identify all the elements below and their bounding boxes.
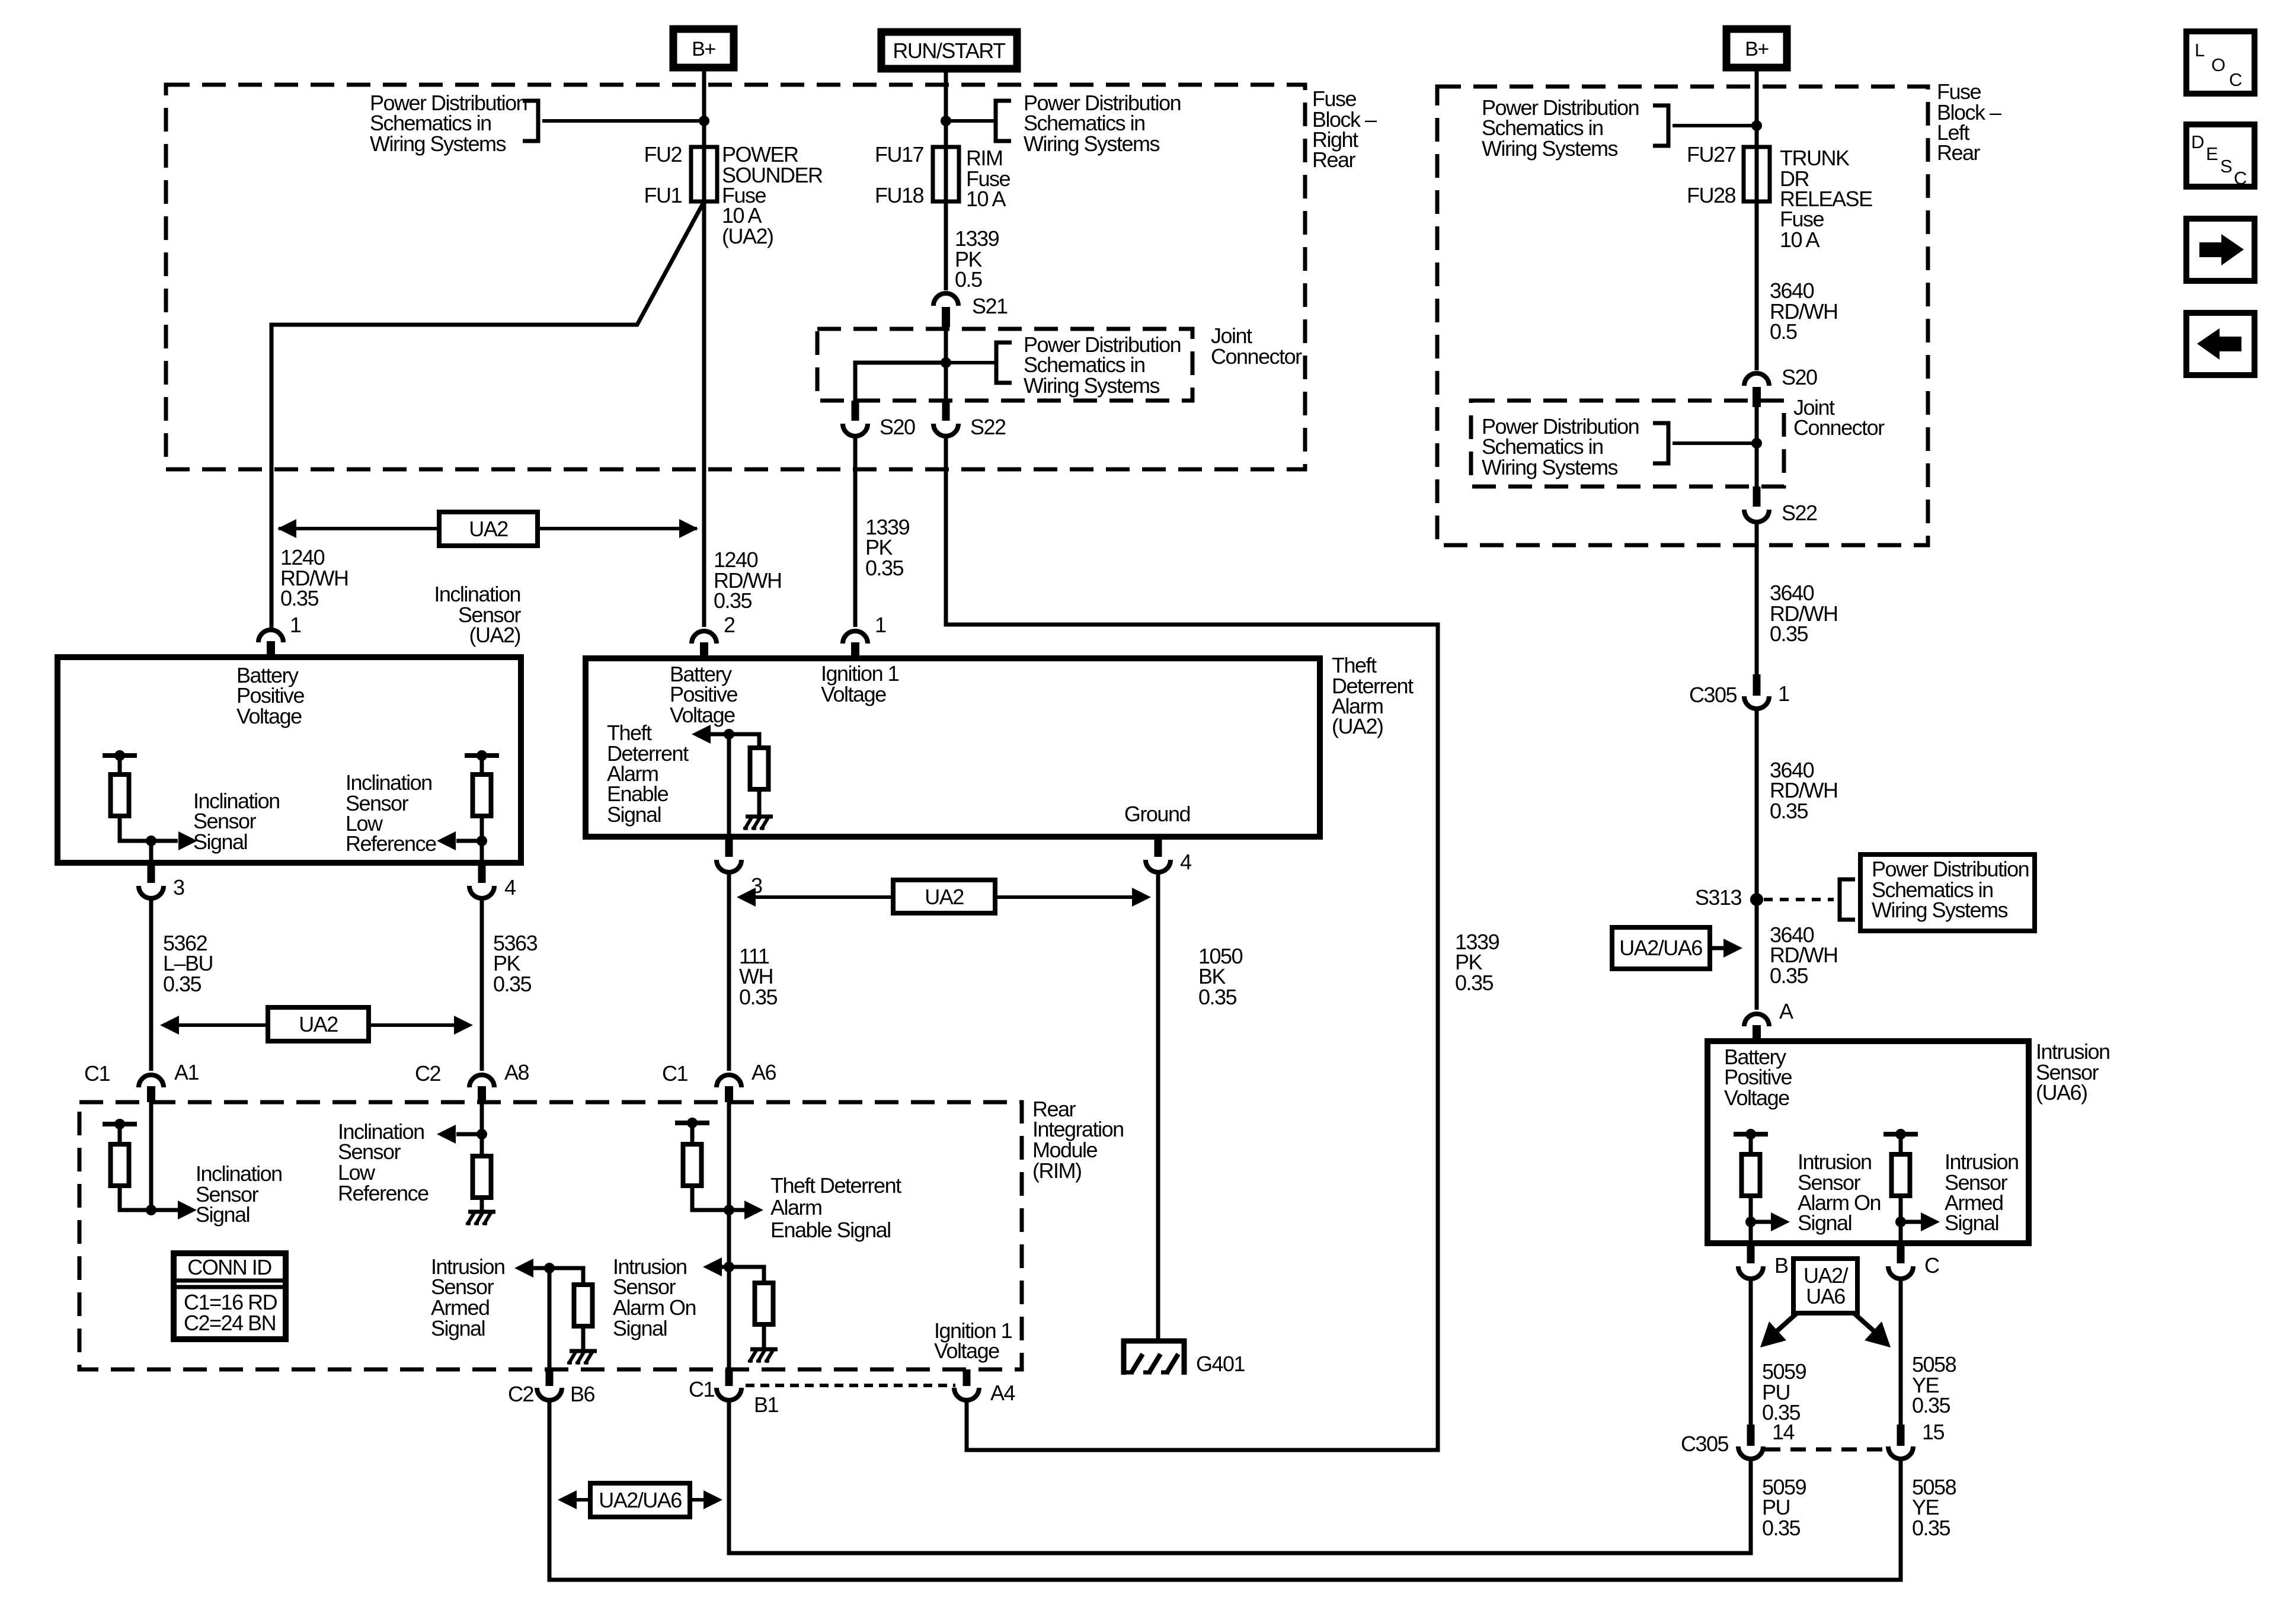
svg-text:Voltage: Voltage	[236, 704, 302, 728]
intrusion alarm on resistor	[1742, 1154, 1760, 1196]
splice label S22	[970, 415, 1006, 439]
RIM armed signal arrow	[532, 1266, 549, 1270]
wire fuse FU28 to splice S20 left rear	[1755, 147, 1759, 370]
svg-text:(UA6): (UA6)	[2036, 1080, 2087, 1105]
svg-text:RUN/START: RUN/START	[893, 39, 1006, 63]
ground label G401	[1196, 1352, 1245, 1376]
tda label theft deterrent alarm UA2	[1332, 653, 1414, 738]
svg-text:A8: A8	[504, 1060, 529, 1084]
splice label S22 (left rear)	[1782, 501, 1817, 525]
inclination sensor signal arrow	[151, 839, 178, 843]
RIM armed signal resistor lead	[549, 1268, 583, 1285]
svg-text:C: C	[2234, 168, 2247, 188]
intrusion sensor pin A connector	[1744, 1014, 1769, 1041]
svg-text:C: C	[1924, 1253, 1939, 1278]
power distribution note 4	[1482, 95, 1639, 161]
fuse value label TRUNK DR RELEASE Fuse 10 A	[1780, 146, 1872, 252]
svg-text:Wiring Systems: Wiring Systems	[370, 132, 506, 156]
joint connector box (left rear, dashed)	[1471, 401, 1784, 486]
svg-text:3: 3	[173, 875, 184, 900]
RIM inclination low reference label	[338, 1119, 428, 1205]
svg-text:FU1: FU1	[644, 183, 682, 207]
pin label C1 (A1)	[84, 1061, 110, 1086]
intrusion armed resistor	[1892, 1154, 1910, 1196]
harness label box UA2 (incl)	[268, 1007, 369, 1041]
svg-text:0.35: 0.35	[1912, 1516, 1950, 1540]
RIM alarm on signal arrow	[722, 1265, 729, 1269]
RIM pin A6 connector	[717, 1075, 741, 1102]
wire junction to bracket (power distribution ref 2)	[946, 119, 996, 123]
svg-text:C2: C2	[415, 1061, 440, 1086]
fuse block - right rear (dashed enclosure)	[166, 85, 1305, 469]
RIM alarm on resistor lead	[729, 1267, 764, 1283]
junction RIM enable signal	[724, 1205, 734, 1215]
RIM low reference resistor	[473, 1156, 491, 1198]
bracket to power distribution note 1	[523, 101, 538, 141]
svg-text:0.35: 0.35	[280, 586, 319, 610]
junction tda enable signal	[724, 729, 734, 740]
splice S21	[933, 293, 958, 327]
svg-text:C1: C1	[689, 1377, 714, 1401]
inclination box label battery positive voltage	[236, 663, 305, 728]
wire RIM B1 to intrusion sensor B	[729, 1400, 1751, 1553]
inclination sensor signal resistor lower lead	[120, 816, 151, 841]
joint connector label (left rear)	[1793, 395, 1885, 440]
intrusion sensor reference label (UA6)	[2036, 1039, 2110, 1105]
arrowhead left (UA2/UA6 bottom)	[558, 1490, 577, 1509]
wire intrusion B to C305 pin 14	[1749, 1279, 1753, 1426]
svg-text:0.5: 0.5	[1770, 319, 1797, 344]
RIM pin B6 connector	[537, 1369, 562, 1400]
arrowhead left (UA2 battery feeds)	[277, 519, 296, 538]
bracket to power distribution note 5	[1653, 423, 1668, 463]
svg-text:G401: G401	[1196, 1352, 1245, 1376]
inclination pin 4 connector	[469, 863, 494, 898]
connector C305 pin 15	[1888, 1425, 1913, 1459]
svg-text:(RIM): (RIM)	[1032, 1158, 1081, 1183]
pin label B (intrusion)	[1774, 1253, 1788, 1278]
RIM intrusion sensor armed signal label	[431, 1254, 505, 1340]
harness range arrow UA2 (battery feeds)	[279, 527, 697, 530]
splice S20 (left rear)	[1744, 373, 1769, 407]
svg-text:CONN ID: CONN ID	[187, 1255, 271, 1279]
junction in joint connector 2	[1751, 438, 1762, 449]
wire label 3640 RD/WH 0.35 (below S313)	[1770, 923, 1837, 988]
wire label 1240 RD/WH 0.35 (inclination feed)	[280, 545, 348, 610]
svg-text:0.35: 0.35	[739, 985, 778, 1009]
RIM enable signal lower lead	[692, 1186, 729, 1210]
fuse value label RIM Fuse 10 A	[966, 146, 1011, 211]
power distribution reference box (solid)	[1860, 854, 2035, 931]
rear integration module RIM (dashed enclosure)	[79, 1102, 1022, 1369]
intrusion pin C connector	[1888, 1243, 1913, 1279]
svg-text:Signal: Signal	[1945, 1211, 1998, 1235]
wire S22 left rear to connector C305 pin 1	[1755, 521, 1759, 677]
tda pin 1 connector	[843, 631, 868, 658]
junction on B+ wire	[699, 116, 709, 126]
svg-text:Connector: Connector	[1793, 415, 1885, 440]
svg-text:15: 15	[1922, 1420, 1945, 1444]
svg-text:2: 2	[724, 613, 735, 637]
svg-text:A1: A1	[174, 1060, 199, 1084]
RIM theft deterrent alarm enable signal label	[770, 1173, 901, 1242]
svg-text:Signal: Signal	[1798, 1211, 1851, 1235]
pin label A4	[990, 1381, 1015, 1405]
svg-text:UA2: UA2	[469, 517, 508, 541]
svg-text:Wiring Systems: Wiring Systems	[1482, 455, 1618, 479]
svg-text:(UA2): (UA2)	[722, 224, 773, 248]
svg-text:1: 1	[1778, 681, 1789, 706]
harness label box UA2/UA6 (S313)	[1612, 927, 1710, 969]
RIM inclination signal resistor t-bar	[103, 1119, 137, 1129]
svg-text:O: O	[2211, 55, 2225, 75]
inclination low reference resistor t-bar	[465, 750, 499, 761]
wire label 1240 RD/WH 0.35 (tda feed)	[714, 548, 781, 613]
svg-text:C1: C1	[662, 1061, 687, 1086]
splice S22	[933, 401, 958, 436]
intrusion armed lower lead	[1899, 1196, 1903, 1243]
svg-text:C1: C1	[84, 1061, 110, 1086]
RIM armed signal lower lead	[581, 1326, 586, 1350]
svg-text:A: A	[1779, 999, 1793, 1023]
inclination sensor signal resistor lead	[118, 756, 122, 774]
arrowhead right (UA2 incl)	[454, 1016, 473, 1035]
svg-text:Wiring Systems: Wiring Systems	[1872, 898, 2008, 922]
splice S20	[843, 401, 868, 436]
connector C305 pin 14	[1738, 1425, 1763, 1459]
wire S20 into joint connector 2	[1755, 399, 1759, 443]
arrow UA2/UA6 to wire C	[1854, 1313, 1876, 1333]
wire fuse FU18 to splice S21	[944, 147, 948, 290]
wire junction to splice S20 branch	[855, 363, 946, 403]
svg-text:Voltage: Voltage	[670, 703, 735, 727]
svg-text:Voltage: Voltage	[821, 682, 886, 706]
svg-text:FU17: FU17	[875, 142, 924, 167]
wire diagonal from fuse FU1 toward inclination sensor	[271, 201, 704, 628]
pin label A (intrusion)	[1779, 999, 1793, 1023]
harness label box UA2 (battery feeds)	[439, 512, 538, 546]
svg-text:S22: S22	[970, 415, 1006, 439]
svg-text:0.35: 0.35	[163, 972, 202, 996]
pin label C1 (B1)	[689, 1377, 714, 1401]
ground G401 symbol	[1121, 1339, 1187, 1375]
inclination sensor box	[57, 657, 521, 863]
bracket to power distribution note 2	[996, 101, 1011, 141]
svg-text:Rear: Rear	[1312, 148, 1356, 172]
ground symbol inside tda	[743, 817, 773, 830]
wire inclination pin 3 internal	[149, 841, 154, 863]
wire tda pin 3 to RIM A6	[727, 872, 731, 1071]
ground symbol RIM alarm on	[748, 1349, 778, 1362]
wire S21 into joint connector	[944, 319, 948, 363]
splice S22 (left rear)	[1744, 486, 1769, 522]
svg-text:B6: B6	[570, 1382, 595, 1406]
power node B+ (fuse block left rear)	[1726, 29, 1787, 68]
svg-text:A4: A4	[990, 1381, 1015, 1405]
inclination low reference arrow	[456, 839, 482, 843]
svg-text:4: 4	[504, 875, 516, 900]
tda label ground	[1124, 802, 1190, 826]
tda pin 4 connector	[1146, 837, 1171, 872]
fuse label FU17	[875, 142, 924, 167]
intrusion alarm on resistor lead	[1749, 1134, 1753, 1154]
wire junction to bracket (power distribution ref 4)	[1673, 124, 1757, 127]
wire label 5362 L-BU 0.35	[163, 931, 213, 996]
RIM inclination signal resistor	[111, 1144, 129, 1186]
RIM enable signal resistor lead	[690, 1123, 695, 1144]
RIM inclination signal resistor lead	[118, 1124, 122, 1144]
power distribution note 6 (boxed)	[1872, 857, 2029, 922]
wire label 1050 BK 0.35	[1198, 944, 1243, 1009]
wire fuse FU1 to theft deterrent alarm pin 2	[702, 147, 706, 627]
svg-text:FU18: FU18	[875, 183, 924, 207]
RIM enable signal resistor	[683, 1144, 702, 1186]
tda enable signal label	[607, 721, 689, 827]
splice label S20	[880, 415, 915, 439]
svg-text:0.35: 0.35	[1770, 622, 1808, 646]
fuse block - left rear (dashed enclosure)	[1437, 87, 1928, 545]
harness label box UA2 (tda)	[893, 880, 995, 913]
inclination low reference label	[346, 770, 436, 856]
intrusion sensor alarm on signal label	[1798, 1150, 1881, 1235]
fuse block - left rear label	[1937, 79, 2001, 165]
svg-text:C305: C305	[1689, 683, 1737, 707]
svg-text:Reference: Reference	[338, 1181, 428, 1205]
svg-text:C2=24 BN: C2=24 BN	[184, 1311, 276, 1335]
junction RIM armed signal	[544, 1263, 555, 1273]
splice S313 junction	[1750, 893, 1763, 906]
harness label box UA2/UA6 (intrusion)	[1793, 1259, 1857, 1313]
bracket to power distribution box	[1840, 879, 1855, 920]
connector C305 pin 1	[1744, 674, 1769, 709]
RIM inclination sensor signal label	[196, 1161, 282, 1227]
bracket to power distribution note 3	[996, 343, 1012, 383]
svg-text:Wiring Systems: Wiring Systems	[1024, 132, 1160, 156]
inclination sensor signal label	[193, 789, 280, 854]
splice label S21	[972, 294, 1008, 318]
fuse label FU27	[1687, 142, 1736, 167]
harness range arrow UA2 (tda outputs)	[741, 895, 1144, 899]
RIM alarm on lower lead	[762, 1324, 766, 1348]
wire label 1339 PK 0.35 (long ignition feed)	[1455, 930, 1499, 995]
pin label C (intrusion)	[1924, 1253, 1939, 1278]
svg-text:S: S	[2220, 156, 2232, 177]
wire junction down to splice S22 left rear	[1755, 443, 1759, 489]
intrusion sensor box	[1707, 1041, 2029, 1243]
svg-text:S22: S22	[1782, 501, 1817, 525]
arrow UA2/UA6 to wire	[1710, 946, 1726, 950]
joint connector label (right rear)	[1211, 324, 1302, 369]
intrusion alarm on resistor t-bar	[1734, 1129, 1768, 1140]
svg-text:C305: C305	[1681, 1432, 1729, 1456]
wire label 1339 PK 0.5	[955, 226, 999, 292]
wire junction to bracket (power distribution ref)	[542, 119, 704, 123]
pin label B1	[754, 1393, 779, 1417]
wire S20 to theft deterrent alarm pin 1	[853, 435, 858, 627]
wire label 5059 PU 0.35 (upper)	[1762, 1359, 1806, 1425]
junction on RUN/START wire	[941, 116, 951, 126]
svg-text:UA2/UA6: UA2/UA6	[1619, 936, 1702, 960]
RIM pin A1 connector	[139, 1075, 164, 1102]
harness range arrow UA2 (inclination outputs)	[167, 1023, 466, 1027]
pin label C2 (A8)	[415, 1061, 440, 1086]
bracket to power distribution note 4	[1653, 105, 1668, 146]
arrowhead right (UA2 tda)	[1132, 888, 1151, 907]
tda enable signal resistor lead	[729, 734, 759, 748]
pin label 3 (inclination)	[173, 875, 184, 900]
inclination low reference resistor	[473, 774, 491, 816]
wire label 3640 RD/WH 0.35 (below C305)	[1770, 758, 1837, 823]
wire RIM A1 internal	[149, 1102, 154, 1210]
junction RIM alarm on signal	[724, 1262, 734, 1272]
wire inclination pin 4 to RIM A8	[480, 898, 484, 1071]
RIM enable signal resistor t-bar	[675, 1118, 709, 1128]
wire label 3640 RD/WH 0.35 (above C305)	[1770, 581, 1837, 646]
svg-text:0.35: 0.35	[865, 556, 904, 580]
junction RIM inclination signal	[146, 1205, 156, 1215]
harness label box UA2/UA6 (bottom)	[590, 1483, 690, 1517]
junction inclination sensor signal	[146, 836, 156, 846]
tda label ignition 1 voltage	[821, 661, 899, 706]
RIM alarm on resistor	[755, 1283, 773, 1324]
inclination pin 3 connector	[139, 863, 164, 898]
arrowhead right (UA2 battery feeds)	[679, 519, 698, 538]
svg-text:1: 1	[290, 613, 301, 637]
ground symbol RIM low reference	[466, 1212, 495, 1225]
RIM bottom notch dashed line	[746, 1384, 955, 1387]
splice label S20 (left rear)	[1782, 365, 1817, 389]
power distribution note 2	[1024, 91, 1181, 156]
wire intrusion C to C305 pin 15	[1899, 1279, 1903, 1426]
harness range arrow UA2/UA6 (bottom)	[565, 1498, 715, 1502]
inclination sensor signal resistor	[111, 774, 129, 816]
arrowhead left (UA2 incl)	[160, 1016, 179, 1035]
fuse FU17/FU18 RIM	[933, 147, 959, 201]
svg-text:Voltage: Voltage	[1724, 1086, 1789, 1110]
RIM low reference resistor lead	[480, 1134, 484, 1156]
RIM inclination signal lower lead	[120, 1186, 151, 1210]
junction inclination low reference	[477, 836, 487, 846]
power node RUN/START	[881, 32, 1017, 69]
intrusion armed resistor lead	[1899, 1134, 1903, 1154]
svg-text:S20: S20	[1782, 365, 1817, 389]
inclination sensor pin 1 connector	[258, 630, 283, 657]
svg-text:14: 14	[1772, 1420, 1795, 1444]
pin label 1 (inclination)	[290, 613, 301, 637]
wire label 1339 PK 0.35 (pin 1 feed)	[865, 515, 910, 580]
rear integration module label	[1032, 1097, 1124, 1183]
pin label A1	[174, 1060, 199, 1084]
svg-text:0.35: 0.35	[493, 972, 532, 996]
wire junction to bracket (power distribution ref 3)	[946, 361, 996, 364]
wire label 111 WH 0.35	[739, 944, 778, 1009]
pin label 14 (C305)	[1772, 1420, 1795, 1444]
fuse FU27/FU28 TRUNK DR RELEASE	[1744, 147, 1770, 201]
svg-text:0.35: 0.35	[1762, 1516, 1801, 1540]
svg-text:E: E	[2206, 143, 2218, 164]
RIM low reference lower lead	[480, 1198, 484, 1211]
RIM pin A4 connector	[954, 1369, 979, 1400]
wire label 5363 PK 0.35	[493, 931, 538, 996]
RIM armed signal junction wire	[548, 1268, 552, 1369]
wire tda pin 4 to ground G401	[1156, 872, 1160, 1341]
tda enable signal resistor lower lead	[757, 789, 762, 815]
wire S22 to RIM pin A4 (long ignition feed)	[946, 435, 1438, 1450]
pin label B6	[570, 1382, 595, 1406]
wire RIM A8 internal	[480, 1102, 484, 1134]
svg-text:B+: B+	[692, 38, 715, 60]
intrusion pin B connector	[1738, 1243, 1763, 1279]
junction RIM low reference	[477, 1129, 487, 1140]
pin label A6	[752, 1060, 776, 1084]
junction intrusion alarm on	[1745, 1217, 1756, 1227]
pin label 15 (C305)	[1922, 1420, 1945, 1444]
inclination low reference lower lead	[480, 816, 484, 863]
svg-text:S20: S20	[880, 415, 915, 439]
wire label 3640 RD/WH 0.5	[1770, 279, 1837, 344]
power distribution note 3	[1024, 332, 1181, 398]
pin label C1 (A6)	[662, 1061, 687, 1086]
fuse label FU1	[644, 183, 682, 207]
pin label A8	[504, 1060, 529, 1084]
pin label 3 (tda)	[751, 873, 762, 898]
inclination low reference resistor lead	[480, 756, 484, 774]
wire junction to bracket (power distribution ref 5)	[1673, 441, 1757, 445]
svg-text:Signal: Signal	[193, 830, 247, 854]
connector label C305 (pin 1)	[1689, 683, 1737, 707]
svg-text:0.35: 0.35	[1198, 985, 1237, 1009]
svg-text:Rear: Rear	[1937, 140, 1981, 165]
intrusion sensor armed signal label	[1945, 1150, 2019, 1235]
previous page arrow box	[2186, 313, 2255, 375]
svg-text:Wiring Systems: Wiring Systems	[1482, 136, 1618, 161]
svg-text:10 A: 10 A	[966, 187, 1006, 211]
pin label 1 (tda)	[875, 613, 886, 637]
intrusion alarm on lower lead	[1749, 1196, 1753, 1243]
fuse block - right rear label	[1312, 87, 1377, 172]
svg-text:B: B	[1774, 1253, 1788, 1278]
RIM inclination signal arrow	[151, 1208, 178, 1212]
svg-text:Signal: Signal	[613, 1316, 667, 1340]
theft deterrent alarm box	[586, 658, 1320, 837]
junction on B+ left rear wire	[1751, 120, 1762, 131]
svg-text:Signal: Signal	[431, 1316, 485, 1340]
ground symbol RIM armed signal	[567, 1351, 597, 1364]
svg-text:D: D	[2191, 132, 2204, 152]
tda pin 2 connector	[692, 631, 717, 658]
LOC reference box	[2186, 31, 2255, 94]
wire C305 pin 1 to intrusion sensor pin A	[1755, 709, 1759, 1010]
arrow UA2/UA6 to wire B	[1774, 1313, 1797, 1333]
arrowhead left (UA2 tda)	[737, 888, 756, 907]
pin label C2 (B6)	[508, 1382, 533, 1406]
power distribution note 5	[1482, 414, 1639, 479]
svg-text:0.5: 0.5	[955, 267, 982, 292]
svg-text:Signal: Signal	[196, 1202, 250, 1227]
svg-text:L: L	[2195, 40, 2205, 60]
RIM pin B1 connector	[717, 1369, 741, 1400]
svg-text:0.35: 0.35	[1912, 1393, 1950, 1417]
junction in joint connector	[941, 357, 951, 368]
fuse label FU18	[875, 183, 924, 207]
svg-text:1: 1	[875, 613, 886, 637]
svg-text:Wiring Systems: Wiring Systems	[1024, 373, 1160, 398]
connector label C305 (bottom)	[1681, 1432, 1729, 1456]
intrusion alarm on arrow	[1751, 1220, 1771, 1224]
wire RIM A6 to B1 internal	[727, 1102, 731, 1369]
svg-text:UA2/UA6: UA2/UA6	[599, 1488, 682, 1512]
svg-text:(UA2): (UA2)	[1332, 714, 1383, 738]
